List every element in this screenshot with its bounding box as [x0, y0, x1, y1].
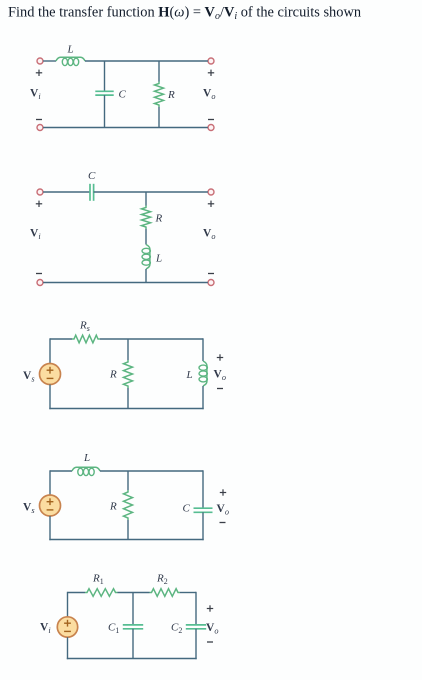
- capacitor C c1: [95, 90, 113, 92]
- wire R branch upper: [158, 61, 160, 82]
- terminal bottom-left c1: [37, 125, 43, 131]
- wire top-left corner to Rs: [50, 338, 72, 340]
- svg-text:Vo: Vo: [214, 369, 226, 383]
- minus left c2: [36, 273, 42, 275]
- svg-text:C: C: [119, 88, 127, 100]
- wire Rs to top-right corner: [100, 338, 203, 340]
- svg-text:C: C: [88, 170, 96, 182]
- wire C branch lower: [104, 95, 106, 127]
- wire bottom c1: [43, 127, 208, 129]
- terminal bottom-right c1: [208, 125, 214, 131]
- svg-text:Vi: Vi: [30, 88, 41, 102]
- resistor Rs c3: [72, 335, 100, 343]
- wire top-left corner to L: [50, 470, 72, 472]
- wire left lower c4: [49, 516, 51, 540]
- wire R branch lower: [158, 107, 160, 128]
- wire L to top-right terminal: [85, 60, 208, 62]
- svg-text:Vo: Vo: [203, 228, 215, 242]
- minus Vo c5: [207, 641, 213, 643]
- wire mid upper c3: [127, 339, 129, 360]
- svg-text:C: C: [183, 503, 191, 515]
- svg-text:R: R: [167, 89, 175, 101]
- capacitor C c2: [89, 184, 91, 201]
- svg-text:R2: R2: [156, 573, 168, 587]
- plus Vo c4: [220, 492, 226, 494]
- terminal bottom-left c2: [37, 280, 43, 286]
- svg-text:Vo: Vo: [206, 622, 218, 636]
- wire right upper c5: [195, 592, 197, 625]
- wire right lower c3: [202, 386, 204, 409]
- wire mid upper c2: [145, 192, 147, 206]
- svg-text:L: L: [155, 253, 162, 265]
- plus Vo c5: [207, 608, 213, 610]
- capacitor C c4: [194, 507, 213, 509]
- wire right lower c4: [202, 512, 204, 540]
- svg-text:R: R: [155, 213, 163, 225]
- svg-text:Rs: Rs: [79, 320, 90, 334]
- plus left c2: [36, 203, 42, 205]
- wire top-left to C: [43, 191, 90, 193]
- terminal bottom-right c2: [208, 280, 214, 286]
- wire top-left to L: [43, 60, 56, 62]
- inductor L c2: [146, 245, 150, 270]
- minus Vo c3: [217, 388, 223, 390]
- svg-text:Vo: Vo: [217, 503, 229, 517]
- terminal top-right c2: [208, 189, 214, 195]
- inductor L c1: [56, 57, 85, 61]
- resistor R c1: [155, 82, 164, 108]
- svg-text:Vo: Vo: [203, 88, 215, 102]
- wire left lower c5: [67, 637, 69, 659]
- wire top-left corner to R1: [68, 592, 86, 594]
- plus Vo c3: [217, 357, 223, 359]
- minus left c1: [36, 119, 42, 121]
- plus right c1: [208, 72, 214, 74]
- inductor L c3: [203, 361, 207, 386]
- capacitor C1 c5: [123, 624, 143, 626]
- source Vs c3: [40, 364, 61, 385]
- svg-text:C1: C1: [108, 622, 119, 636]
- wire bottom c3: [49, 408, 203, 410]
- svg-text:Vs: Vs: [23, 502, 35, 516]
- wire C branch upper: [104, 61, 106, 91]
- wire C to top-right terminal: [94, 191, 208, 193]
- minus Vo c4: [220, 522, 226, 524]
- svg-text:L: L: [67, 44, 74, 56]
- terminal top-left c1: [37, 58, 43, 64]
- svg-text:L: L: [83, 452, 90, 464]
- svg-text:Vi: Vi: [40, 622, 51, 636]
- svg-text:R1: R1: [92, 573, 104, 587]
- wire right lower c5: [195, 629, 197, 659]
- wire left upper c4: [49, 470, 51, 495]
- svg-text:L: L: [186, 369, 193, 381]
- svg-text:Find the transfer function H(ω: Find the transfer function H(ω) = Vo/Vi …: [8, 4, 361, 22]
- minus right c1: [208, 119, 214, 121]
- svg-text:Vi: Vi: [30, 228, 41, 242]
- wire bottom c2: [43, 282, 208, 284]
- svg-text:Vs: Vs: [23, 370, 35, 384]
- wire L to top-right corner: [100, 470, 203, 472]
- wire mid lower c5: [132, 629, 134, 659]
- wire mid upper c4: [127, 471, 129, 490]
- terminal top-left c2: [37, 189, 43, 195]
- inductor L c4: [72, 467, 100, 471]
- wire right upper c4: [202, 470, 204, 508]
- wire mid upper c5: [132, 593, 134, 625]
- minus right c2: [208, 273, 214, 275]
- wire mid lower c4: [127, 520, 129, 540]
- svg-text:C2: C2: [171, 622, 182, 636]
- wire left upper c5: [67, 592, 69, 617]
- wire L to bottom c2: [145, 269, 147, 283]
- resistor R c2: [142, 206, 151, 230]
- svg-text:R: R: [109, 369, 117, 381]
- resistor R1 c5: [85, 589, 118, 597]
- resistor R c4: [124, 490, 133, 520]
- capacitor C2 c5: [186, 624, 206, 626]
- wire mid lower c3: [127, 388, 129, 409]
- wire R to L c2: [145, 229, 147, 245]
- resistor R2 c5: [150, 589, 181, 597]
- resistor R c3: [124, 360, 133, 388]
- wire R2 to top-right corner: [180, 592, 196, 594]
- source Vs c4: [40, 495, 61, 516]
- wire R1 to R2: [118, 592, 150, 594]
- wire right upper c3: [202, 338, 204, 361]
- wire bottom c5: [67, 658, 197, 660]
- plus right c2: [208, 203, 214, 205]
- terminal top-right c1: [208, 58, 214, 64]
- plus left c1: [36, 72, 42, 74]
- wire left lower c3: [49, 385, 51, 410]
- wire bottom c4: [49, 539, 203, 541]
- source Vi c5: [57, 617, 77, 637]
- wire left upper c3: [49, 338, 51, 363]
- svg-text:R: R: [109, 501, 117, 513]
